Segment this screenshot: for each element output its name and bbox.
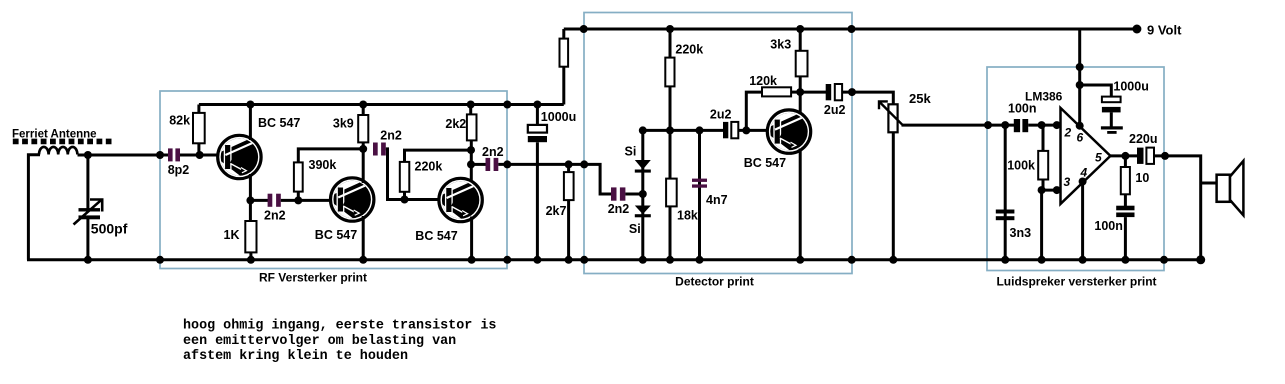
wire feedback riser xyxy=(746,92,763,130)
svg-text:2u2: 2u2 xyxy=(824,103,846,117)
node Q4 emitter ground xyxy=(796,256,804,264)
node diode column ground xyxy=(639,256,647,264)
speaker LS1 xyxy=(1217,175,1230,202)
node 3n3 ground xyxy=(1001,256,1009,264)
node RF rail at board edge xyxy=(503,101,511,109)
svg-text:220u: 220u xyxy=(1129,132,1158,146)
wire output pin 5 xyxy=(1110,154,1137,157)
Detector print board outline xyxy=(584,13,852,274)
node output junction xyxy=(1121,152,1129,160)
node T3 emitter ground xyxy=(468,256,476,264)
capacitor 2n2 detector input xyxy=(611,187,617,200)
svg-text:10: 10 xyxy=(1135,171,1149,185)
node 2k7 top junction xyxy=(565,160,573,168)
svg-text:25k: 25k xyxy=(909,91,931,106)
svg-text:Si: Si xyxy=(629,222,641,236)
node pin 4 ground xyxy=(1079,256,1087,264)
node T2 collector junction xyxy=(359,145,367,153)
resistor 3k9 xyxy=(362,105,365,117)
node 9V terminal xyxy=(1132,25,1141,34)
svg-text:2n2: 2n2 xyxy=(380,129,402,143)
capacitor 1000u RF xyxy=(528,125,547,133)
capacitor 2n2 second xyxy=(373,143,378,156)
capacitor 2u2 detector output xyxy=(826,84,832,100)
capacitor 1000u amplifier xyxy=(1102,97,1121,103)
capacitor 2n2 output xyxy=(486,158,491,171)
node diode junction mid xyxy=(639,190,647,198)
node detector board edge ground left xyxy=(580,256,588,264)
wire 2n2 to diode node xyxy=(625,193,642,196)
node 1K ground xyxy=(247,256,255,264)
svg-text:1K: 1K xyxy=(224,228,240,242)
RF Versterker print board outline xyxy=(160,91,507,269)
svg-text:3k3: 3k3 xyxy=(770,38,791,52)
wire Q4 collector xyxy=(799,92,802,115)
capacitor 2u2 detector input xyxy=(723,122,728,138)
svg-text:RF Versterker print: RF Versterker print xyxy=(259,271,367,285)
variable capacitor arrow xyxy=(74,199,103,224)
wire 1000u column xyxy=(536,105,539,127)
resistor 10 xyxy=(1124,156,1127,168)
svg-text:9 Volt: 9 Volt xyxy=(1147,23,1182,38)
node output at detector board edge xyxy=(848,88,856,96)
svg-text:2n2: 2n2 xyxy=(482,145,504,159)
node T1 collector at rail xyxy=(246,101,254,109)
wire 2u2 to Q4 base xyxy=(738,129,769,132)
capacitor 100n input xyxy=(1014,119,1020,132)
capacitor 8p2 xyxy=(168,148,173,161)
svg-text:LM386: LM386 xyxy=(1025,90,1063,104)
node pot ground xyxy=(889,256,897,264)
node 2k7 ground xyxy=(565,256,573,264)
diode D2 Si xyxy=(635,206,651,215)
Luidspreker versterker print board outline xyxy=(987,67,1164,271)
svg-text:Si: Si xyxy=(625,145,637,159)
svg-text:afstem kring klein te houden: afstem kring klein te houden xyxy=(183,349,408,364)
svg-text:4: 4 xyxy=(1080,166,1088,180)
resistor 18k xyxy=(669,130,672,179)
wire 2n2 to T2 base xyxy=(281,199,332,202)
svg-text:100n: 100n xyxy=(1008,102,1037,116)
capacitor 3n3 xyxy=(996,210,1015,214)
node speaker ground xyxy=(1196,255,1205,264)
diode D1 Si xyxy=(635,160,651,170)
svg-text:2k7: 2k7 xyxy=(546,204,567,218)
wire 100n to pin 2 xyxy=(1028,124,1061,127)
svg-text:3k9: 3k9 xyxy=(333,117,354,131)
wire 9V riser to pin 6 xyxy=(1078,29,1081,126)
node detector board edge ground right xyxy=(848,256,856,264)
capacitor 4n7 xyxy=(692,179,707,182)
op-amp U1 LM386 xyxy=(1061,108,1111,204)
node pin 3 junction xyxy=(1038,186,1046,194)
svg-text:82k: 82k xyxy=(169,114,190,128)
node 220k at rail xyxy=(666,25,674,33)
svg-text:BC 547: BC 547 xyxy=(744,156,786,170)
node 1000u branch junction xyxy=(1076,81,1084,89)
svg-text:Detector print: Detector print xyxy=(675,275,754,289)
node antenna top junction xyxy=(84,151,92,159)
wire pin 4 to ground xyxy=(1081,182,1084,260)
node 1000u ground xyxy=(533,256,541,264)
potentiometer 25k xyxy=(888,104,897,132)
svg-text:hoog ohmig ingang, eerste tran: hoog ohmig ingang, eerste transistor is xyxy=(183,319,496,334)
node input at board edge xyxy=(156,151,164,159)
node 18k ground xyxy=(666,256,674,264)
resistor 120k xyxy=(762,87,791,96)
node 4n7 ground xyxy=(696,256,704,264)
resistor 390k xyxy=(297,192,300,201)
node input at amplifier board edge xyxy=(984,121,992,129)
resistor 2k7 xyxy=(567,164,570,173)
wire 9 Volt supply rail xyxy=(564,28,1137,31)
resistor 3k3 xyxy=(799,29,802,52)
resistor 1K xyxy=(245,221,256,252)
node pin 2 xyxy=(1053,121,1061,129)
wire 4n7 column xyxy=(698,130,701,259)
wire pin 3 xyxy=(1042,189,1061,192)
transistor Q4 BC547 xyxy=(767,110,810,153)
node T1 emitter junction xyxy=(246,196,254,204)
resistor 220k RF xyxy=(403,192,406,200)
wire 3n3 column xyxy=(1004,125,1007,260)
wire detector node rail xyxy=(643,129,724,132)
svg-text:100k: 100k xyxy=(1007,159,1035,173)
resistor 82k xyxy=(197,105,200,115)
transistor T2 BC547 xyxy=(331,178,374,221)
node amplifier board edge ground right xyxy=(1160,256,1168,264)
node T2 emitter ground xyxy=(359,256,367,264)
node 100k ground xyxy=(1038,256,1046,264)
node RF board edge ground left xyxy=(156,256,164,264)
wire collector node to output cap xyxy=(471,163,486,166)
node pin 3 xyxy=(1053,186,1061,194)
node 100k top junction xyxy=(1038,121,1046,129)
svg-text:100n: 100n xyxy=(1094,219,1123,233)
wire tuning cap top leg xyxy=(86,155,89,209)
wire collector to output cap xyxy=(800,91,826,94)
wire diode column xyxy=(641,130,644,259)
node 220k top junction xyxy=(467,146,475,154)
svg-text:2: 2 xyxy=(1064,126,1072,140)
resistor 220k detector xyxy=(669,29,672,59)
svg-text:3n3: 3n3 xyxy=(1010,226,1032,240)
node 220k 18k junction xyxy=(666,126,674,134)
wire Q4 emitter xyxy=(799,149,802,260)
svg-text:8p2: 8p2 xyxy=(168,163,190,177)
svg-text:220k: 220k xyxy=(675,43,703,57)
svg-text:BC 547: BC 547 xyxy=(258,116,300,130)
svg-text:BC 547: BC 547 xyxy=(315,228,357,242)
resistor 2k2 xyxy=(469,105,472,117)
node riser at board top edge xyxy=(1076,63,1084,71)
node 390k bottom junction xyxy=(294,196,302,204)
variable capacitor 500pf plates xyxy=(79,208,101,211)
transistor T1 BC547 xyxy=(218,135,261,178)
capacitor 2n2 first xyxy=(268,194,273,207)
node rail at detector board right edge xyxy=(848,25,856,33)
node 1000u at rail xyxy=(533,101,541,109)
svg-text:1000u: 1000u xyxy=(1113,80,1148,94)
node pin 4 xyxy=(1079,178,1087,186)
wire pot bottom to ground xyxy=(892,132,895,260)
wire 100n to ground xyxy=(1124,217,1127,260)
node Q4 collector junction xyxy=(796,88,804,96)
node RF output at board edge xyxy=(503,160,511,168)
wire RF supply rail xyxy=(199,103,564,106)
wire 1000u branch xyxy=(1080,85,1112,98)
wire T1 collector xyxy=(249,105,252,141)
node 3k3 at rail xyxy=(796,25,804,33)
wire 8p2 to T1 base xyxy=(180,154,219,157)
svg-text:220k: 220k xyxy=(415,160,443,174)
capacitor 100n output xyxy=(1116,206,1134,211)
svg-text:2n2: 2n2 xyxy=(264,209,286,223)
svg-text:6: 6 xyxy=(1077,131,1084,145)
node Q4 base junction xyxy=(742,126,750,134)
node 3n3 junction xyxy=(1001,121,1009,129)
svg-text:2k2: 2k2 xyxy=(445,117,466,131)
node tuning cap ground xyxy=(84,256,92,264)
wire 100k bottom to ground xyxy=(1040,190,1043,260)
wire 2n2 to T3 base xyxy=(386,149,443,200)
capacitor 220u xyxy=(1137,148,1144,164)
svg-text:18k: 18k xyxy=(677,209,698,223)
svg-text:2u2: 2u2 xyxy=(710,108,732,122)
svg-text:3: 3 xyxy=(1064,175,1071,189)
svg-text:4n7: 4n7 xyxy=(706,193,728,207)
wire T3 emitter xyxy=(470,217,473,260)
wire speaker stub xyxy=(1201,182,1218,185)
wire T2 emitter xyxy=(362,216,365,260)
inductor L1 antenna coil xyxy=(39,147,77,155)
wire 220u to speaker xyxy=(1154,156,1201,260)
wire pot wiper to amplifier xyxy=(902,124,1015,127)
svg-text:een emittervolger om belasting: een emittervolger om belasting van xyxy=(183,334,456,349)
ground rail (bottom bus) xyxy=(27,258,1201,261)
wire detector output to volume pot xyxy=(842,92,893,104)
wire tuning cap bottom leg xyxy=(86,217,89,260)
svg-text:120k: 120k xyxy=(749,74,777,88)
node 2k2 at rail xyxy=(467,101,475,109)
node output cap junction xyxy=(467,160,475,168)
wire T2 collector xyxy=(362,149,365,183)
transistor T3 BC547 xyxy=(439,178,482,221)
node diode column top xyxy=(639,126,647,134)
wire T3 collector xyxy=(470,140,473,183)
node rail at detector board left edge xyxy=(580,25,588,33)
svg-text:390k: 390k xyxy=(309,158,337,172)
wire T1 emitter xyxy=(249,174,252,222)
resistor 100k xyxy=(1042,125,1045,152)
wire coil left leg xyxy=(28,155,40,260)
wire coil to tuning node xyxy=(78,154,169,157)
node pin 6 xyxy=(1076,122,1084,130)
wire 1000u to ground xyxy=(536,142,539,260)
node RF board edge ground right xyxy=(503,256,511,264)
ferrite rod (dashed bar) xyxy=(13,139,112,145)
wire RF output to detector xyxy=(498,164,612,194)
wire T1 emitter to 2n2 xyxy=(250,199,268,202)
svg-text:Luidspreker versterker print: Luidspreker versterker print xyxy=(996,275,1156,289)
node 3k9 at rail xyxy=(359,101,367,109)
svg-text:2n2: 2n2 xyxy=(608,202,630,216)
svg-text:BC 547: BC 547 xyxy=(415,229,457,243)
node 220k bottom junction xyxy=(401,196,409,204)
node 4n7 top xyxy=(696,126,704,134)
svg-text:500pf: 500pf xyxy=(91,221,128,237)
ground symbol 1000u xyxy=(1110,112,1113,126)
node 100n ground xyxy=(1121,256,1129,264)
svg-text:1000u: 1000u xyxy=(541,110,576,124)
node detector board edge input xyxy=(580,160,588,168)
node 82k bottom junction xyxy=(196,151,204,159)
resistor supply feed (unlabeled) xyxy=(562,29,565,105)
svg-text:5: 5 xyxy=(1095,151,1102,165)
node output at board edge xyxy=(1161,152,1169,160)
